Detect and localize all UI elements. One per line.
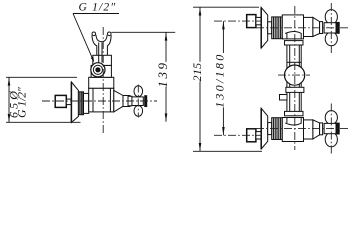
riser block C: [89, 77, 114, 88]
right bottom handle axis: [330, 104, 332, 154]
arrow 130/180 up: [222, 21, 225, 29]
mid segment: [84, 93, 89, 113]
wall union square S3: [247, 129, 256, 142]
arrow 139 down: [165, 114, 168, 122]
handle top lobe: [134, 86, 143, 97]
saddle curve: [285, 31, 301, 33]
nut below circle: [286, 87, 304, 92]
wall union square S1: [55, 95, 66, 107]
arrow 215 down: [199, 143, 202, 151]
riser block B: [91, 65, 111, 77]
white break for 215 text: [193, 62, 202, 82]
right top handle axis: [330, 3, 332, 53]
arrow 130/180 down: [222, 127, 225, 135]
fork prong right: [108, 32, 112, 36]
white break for 139 text: [160, 62, 168, 87]
valve body: [282, 117, 303, 141]
fork prong left: [92, 32, 96, 36]
union stem: [66, 99, 71, 105]
pipe through body: [286, 117, 288, 122]
pipe through body: [286, 34, 288, 39]
wall union square S2: [247, 15, 256, 28]
fork outline: [92, 35, 97, 46]
pipe flange: [285, 41, 304, 45]
right bottom union axis / 130-180 bottom extension: [214, 134, 262, 136]
handle hub: [132, 97, 143, 106]
dim 139 line: [165, 32, 167, 122]
left handle axis: [137, 85, 139, 118]
diverter circle on riser: [285, 65, 305, 85]
handle stem: [320, 123, 323, 135]
fork column: [96, 46, 98, 56]
middle riser pipe inner walls: [289, 45, 291, 112]
pipe flange: [285, 111, 304, 115]
left view horizontal axis: [42, 100, 157, 102]
svg-text:G 1/2″: G 1/2″: [17, 87, 29, 118]
middle riser pipe outer walls: [286, 45, 288, 112]
arrow 215 up: [199, 8, 202, 16]
union stem: [256, 132, 261, 139]
union circle (side view): [91, 63, 105, 77]
handle bottom lobe: [134, 106, 143, 117]
diverter circle axis: [278, 74, 310, 76]
handle stem: [320, 22, 323, 34]
handle end cap: [336, 22, 340, 34]
right bottom valve axis: [256, 128, 350, 130]
dim 139 extension: [112, 31, 176, 33]
dim 215 extension bottom: [193, 150, 262, 152]
bonnet: [304, 120, 313, 139]
escutcheon cone: [261, 108, 268, 149]
escutcheon cone (left view): [71, 82, 78, 123]
handle end cap: [336, 123, 340, 135]
dim 130/180 line: [222, 21, 224, 135]
knurled nut: [272, 17, 283, 39]
dim 65dia extension bottom: [6, 121, 81, 123]
left view riser axis: [102, 27, 104, 133]
tab on pipe left: [280, 95, 288, 101]
label G 1/2" leader: [73, 14, 119, 58]
bonnet: [304, 17, 313, 36]
taper: [313, 120, 320, 139]
knurled nut: [272, 118, 283, 140]
svg-text:G 1/2″: G 1/2″: [79, 2, 117, 14]
arrow 65dia up: [8, 78, 11, 86]
knurled nut (left view): [78, 92, 83, 115]
right top valve axis: [256, 27, 350, 29]
handle lobes: [325, 132, 337, 147]
svg-text:139: 139: [155, 60, 170, 87]
taper: [313, 17, 320, 36]
right view fixture vertical axis: [294, 6, 296, 150]
white break for 130/180 text: [215, 53, 225, 108]
arrow 139 up: [165, 33, 168, 41]
svg-text:130/180: 130/180: [213, 52, 227, 107]
escutcheon cone: [261, 7, 268, 48]
handle hub: [324, 23, 336, 33]
body taper (left view): [114, 90, 123, 112]
leader arrowhead G 1/2: [91, 57, 95, 63]
handle stem (left view): [123, 96, 130, 107]
neck: [268, 123, 272, 135]
pipe joint line above circle: [287, 61, 301, 63]
dim 65dia extension top: [6, 76, 77, 78]
saddle curve: [285, 123, 301, 125]
handle hub: [324, 123, 336, 133]
svg-text:215: 215: [190, 63, 204, 82]
knurl stripes: [79, 92, 81, 115]
dim 215 line: [199, 7, 201, 151]
body parting lines: [92, 88, 94, 112]
handle lobes: [325, 10, 337, 25]
handle end cap: [144, 95, 147, 107]
dim 65dia line: [8, 77, 10, 122]
fork column inner tube: [98, 43, 100, 63]
arrow 65dia down: [8, 114, 11, 122]
union stem: [256, 17, 261, 24]
valve assembly bottom (mirror): [247, 108, 340, 149]
escutcheon wall face: [70, 82, 72, 123]
riser block A: [93, 55, 112, 65]
right top union axis / 130-180 top extension: [214, 20, 262, 22]
valve body (left view): [89, 88, 114, 112]
neck: [268, 22, 272, 34]
valve body: [282, 15, 303, 39]
dim 215 extension top: [193, 6, 259, 8]
valve assembly top: [247, 7, 340, 48]
